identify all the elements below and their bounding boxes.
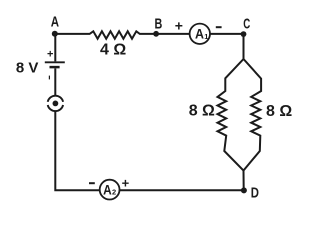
svg-text:A: A (51, 13, 59, 30)
svg-text:1: 1 (204, 32, 208, 41)
svg-text:C: C (243, 16, 250, 33)
svg-text:B: B (155, 16, 163, 33)
svg-text:8 Ω: 8 Ω (189, 103, 215, 120)
svg-text:A: A (195, 26, 204, 42)
svg-text:8 Ω: 8 Ω (266, 103, 292, 120)
svg-text:+: + (47, 48, 53, 60)
svg-text:+: + (122, 175, 130, 190)
svg-text:A: A (103, 181, 112, 197)
svg-text:8 V: 8 V (16, 60, 39, 77)
svg-text:D: D (251, 185, 259, 202)
svg-text:+: + (175, 18, 183, 34)
svg-text:2: 2 (112, 188, 116, 197)
svg-text:4 Ω: 4 Ω (100, 42, 126, 59)
